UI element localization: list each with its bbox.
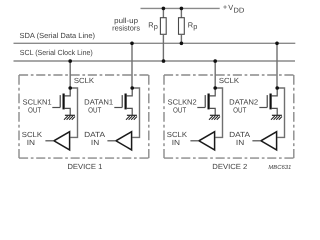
svg-text:DATAN1: DATAN1 xyxy=(84,97,113,106)
svg-text:p: p xyxy=(193,22,197,31)
svg-text:resistors: resistors xyxy=(112,23,140,32)
svg-text:DEVICE 2: DEVICE 2 xyxy=(212,162,247,171)
svg-text:+: + xyxy=(223,3,227,12)
svg-text:SCLKN2: SCLKN2 xyxy=(168,97,197,106)
svg-text:DATAN2: DATAN2 xyxy=(229,97,258,106)
svg-text:SDA (Serial Data Line): SDA (Serial Data Line) xyxy=(20,31,96,40)
svg-text:SCLKN1: SCLKN1 xyxy=(23,97,52,106)
svg-text:DEVICE 1: DEVICE 1 xyxy=(67,162,102,171)
svg-text:DD: DD xyxy=(233,7,244,14)
svg-text:p: p xyxy=(154,22,158,31)
svg-text:SCL (Serial Clock Line): SCL (Serial Clock Line) xyxy=(20,48,93,57)
svg-text:MBC631: MBC631 xyxy=(268,164,291,171)
